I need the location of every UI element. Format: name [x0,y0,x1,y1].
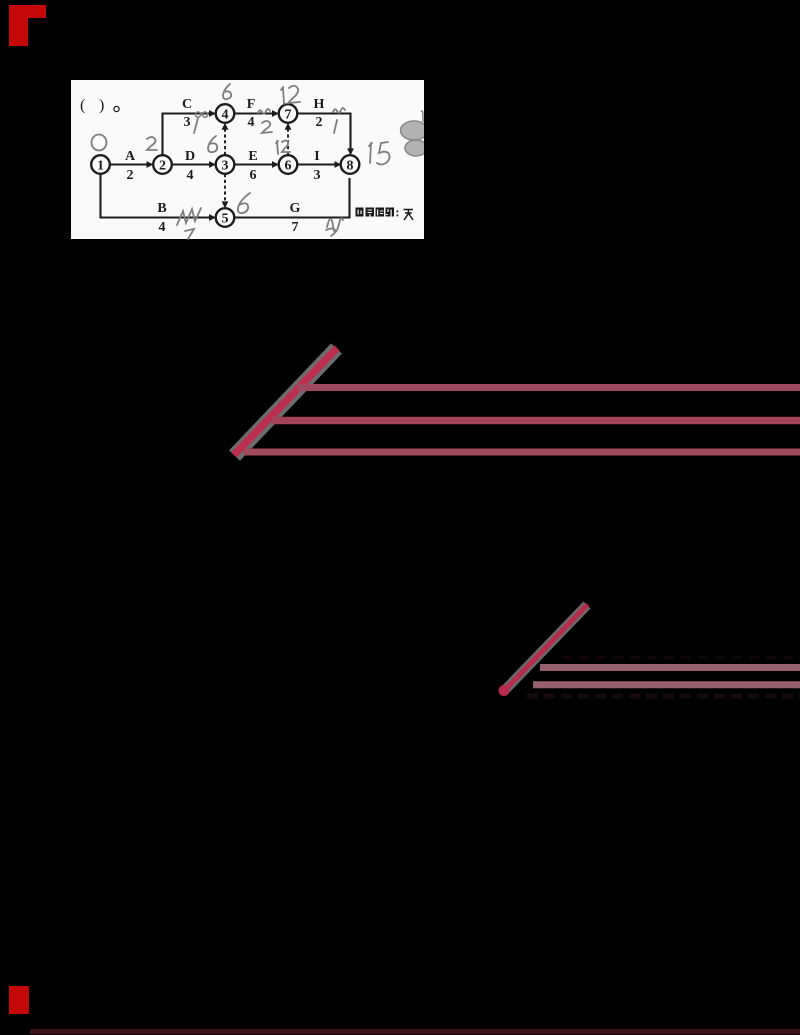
svg-text:4: 4 [159,220,166,235]
svg-text:A: A [125,149,136,164]
svg-text:7: 7 [285,108,292,123]
svg-text:4: 4 [248,115,255,130]
svg-text:H: H [314,97,325,112]
svg-text:G: G [290,201,301,216]
svg-text:6: 6 [250,168,257,183]
svg-text:4: 4 [222,108,229,123]
svg-text:2: 2 [316,115,323,130]
svg-text:): ) [99,97,104,114]
svg-text:1: 1 [97,159,104,174]
svg-text:B: B [157,201,166,216]
svg-text:3: 3 [222,159,229,174]
svg-text:D: D [185,149,195,164]
svg-text:6: 6 [285,159,292,174]
svg-text:2: 2 [159,159,166,174]
svg-text:5: 5 [222,212,229,227]
svg-text:F: F [247,97,256,112]
svg-text:8: 8 [347,159,354,174]
svg-text:C: C [182,97,192,112]
svg-text:3: 3 [184,115,191,130]
svg-text:I: I [314,149,319,164]
svg-text:7: 7 [292,220,299,235]
svg-text:4: 4 [187,168,194,183]
svg-text:3: 3 [314,168,321,183]
svg-text:(: ( [80,97,85,114]
svg-text:E: E [248,149,257,164]
svg-text:2: 2 [127,168,134,183]
